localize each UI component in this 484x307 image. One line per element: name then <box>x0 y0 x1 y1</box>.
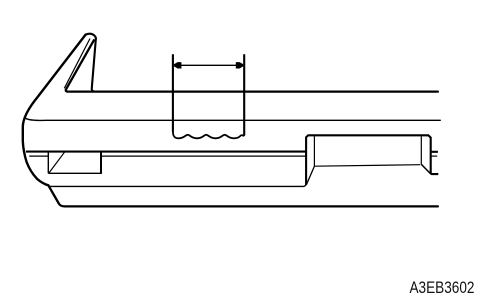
svg-text:A3EB3602: A3EB3602 <box>410 279 475 298</box>
dimension left extension line <box>172 54 174 131</box>
fin back edge thin line <box>64 39 90 89</box>
mid body thick line L3 right stub <box>431 151 438 153</box>
dimension arrow shaft <box>175 64 242 66</box>
upper body line L2 <box>25 118 441 121</box>
lower shell edge line L5 <box>49 184 307 187</box>
recess inner diagonal <box>49 152 64 172</box>
mid body thin line L4 left piece <box>29 155 48 157</box>
tab outer outline <box>306 135 438 185</box>
mid body thin line L4 right stub <box>431 155 437 157</box>
dimension right arrowhead <box>236 62 244 68</box>
dimension right extension line <box>243 54 245 135</box>
fin tip cap and right edge <box>85 34 96 92</box>
tab face bottom edge <box>314 165 420 167</box>
mid body thick line L3 <box>26 151 306 153</box>
dimension left arrowhead <box>174 62 182 68</box>
left lower contour diagonal and bottom line L6 <box>48 185 438 206</box>
tab inner left vertical <box>313 136 315 166</box>
recess right edge <box>100 152 102 174</box>
recess bottom edge <box>48 172 101 174</box>
tab right fillet diagonal <box>421 164 430 174</box>
recess left edge <box>47 152 49 173</box>
tab left fillet diagonal <box>307 166 315 184</box>
fin outer edge and left end contour <box>23 35 86 186</box>
wavy break line <box>173 132 244 139</box>
fin back edge thick line joining top surface line L1 <box>66 40 438 91</box>
tab inner right vertical <box>420 136 422 164</box>
mid body thin line L4 middle piece <box>102 155 306 157</box>
